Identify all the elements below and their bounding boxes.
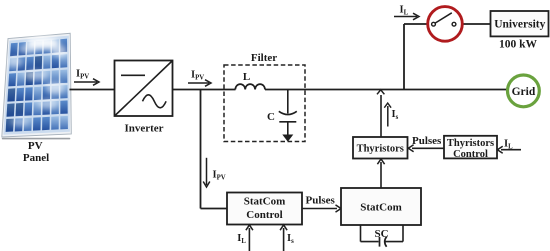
svg-text:StatCom: StatCom [244,196,286,208]
svg-text:Grid: Grid [512,86,536,98]
svg-text:Is: Is [392,109,399,121]
svg-text:Filter: Filter [251,52,277,64]
svg-text:Is: Is [287,233,294,245]
svg-text:C: C [267,111,275,123]
svg-text:Control: Control [453,149,488,160]
svg-text:IL: IL [400,5,409,17]
svg-text:StatCom: StatCom [360,202,402,214]
svg-text:Panel: Panel [23,152,49,164]
svg-text:SC: SC [374,228,388,240]
svg-text:L: L [243,71,250,83]
svg-text:Thyristors: Thyristors [447,138,494,149]
svg-text:University: University [494,19,545,31]
svg-text:100 kW: 100 kW [499,38,538,50]
svg-text:Thyristors: Thyristors [357,144,404,155]
svg-text:PV: PV [28,140,43,152]
svg-text:Inverter: Inverter [124,123,163,135]
svg-text:IPV: IPV [76,69,89,81]
svg-text:IPV: IPV [191,70,204,82]
svg-text:Pulses: Pulses [306,195,336,207]
svg-text:IPV: IPV [213,170,226,182]
svg-text:IL: IL [237,233,246,245]
svg-text:IL: IL [504,139,513,151]
svg-text:Control: Control [246,209,282,221]
svg-text:Pulses: Pulses [412,135,442,147]
